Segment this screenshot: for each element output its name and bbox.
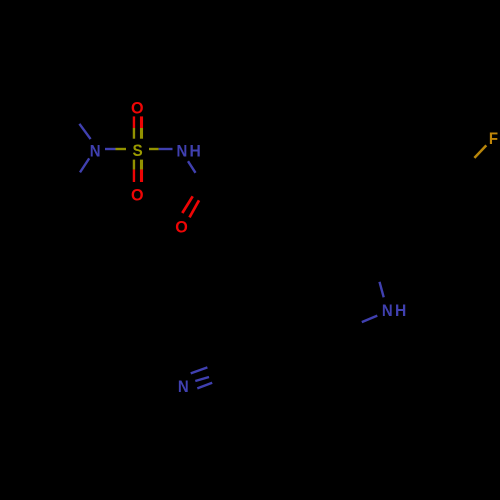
bond N1-S blue half xyxy=(105,148,116,150)
svg-text:N: N xyxy=(178,378,189,396)
bond C#N nitrile line 2 blue half xyxy=(195,377,209,381)
bond C#N nitrile line 3 blue half xyxy=(197,383,212,389)
svg-text:H: H xyxy=(395,302,406,321)
svg-text:S: S xyxy=(133,141,143,160)
svg-text:O: O xyxy=(131,98,144,117)
svg-text:F: F xyxy=(489,130,498,148)
bond N2-C(=O) blue half xyxy=(188,161,196,173)
bond S=O bottom, line 2 olive half xyxy=(140,160,143,170)
bond S=O top, line 1 red half xyxy=(133,116,135,128)
bond S=O top, line 2 olive half xyxy=(140,128,143,139)
bond C-F gold half xyxy=(474,145,486,158)
svg-text:N: N xyxy=(176,143,187,161)
svg-text:H: H xyxy=(189,142,200,161)
svg-text:O: O xyxy=(131,185,144,204)
bond C=O amide, line 1 red half xyxy=(182,196,192,213)
svg-text:N: N xyxy=(382,302,393,320)
bond S=O bottom, line 2 red half xyxy=(140,170,143,182)
bond N1-CH3 lower (blue half) xyxy=(80,158,89,172)
bond S-N2 olive half xyxy=(149,148,159,150)
bond N1-CH3 upper (blue half) xyxy=(79,124,90,139)
bond C#N nitrile line 1 blue half xyxy=(191,367,208,373)
bond S=O bottom, line 1 red half xyxy=(133,170,135,182)
bond S=O bottom, line 1 olive half xyxy=(133,160,135,170)
svg-text:N: N xyxy=(90,143,101,161)
bond S=O top, line 1 olive half xyxy=(133,128,135,139)
bond indole C7a-N3 blue half xyxy=(362,316,378,323)
bond indole C2-N3 blue half xyxy=(380,282,384,298)
bond S=O top, line 2 red half xyxy=(140,116,143,128)
bond C=O amide, line 2 red half xyxy=(190,200,200,217)
bond S-N2 blue half xyxy=(159,148,173,150)
bond N1-S olive half xyxy=(116,148,127,150)
svg-text:O: O xyxy=(175,217,188,236)
